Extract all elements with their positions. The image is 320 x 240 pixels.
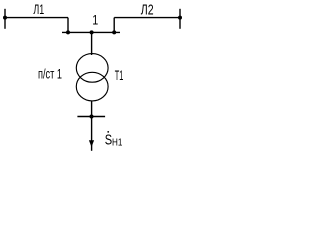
junction dot at left terminal bbox=[3, 16, 7, 20]
line L1 terminal end-bar (left) bbox=[4, 9, 6, 29]
svg-text:Н1: Н1 bbox=[112, 138, 123, 149]
junction dot at right terminal bbox=[178, 16, 182, 20]
junction dot bus right bbox=[112, 30, 116, 34]
label п/ст 1 bbox=[38, 66, 62, 82]
label S (load power) bbox=[105, 132, 112, 148]
bus node 1 bbox=[62, 31, 120, 33]
junction dot bus center bbox=[90, 30, 94, 34]
svg-text:Л1: Л1 bbox=[33, 2, 44, 18]
transformer T1 primary winding bbox=[76, 54, 108, 83]
wire bus to transformer T1 bbox=[91, 32, 93, 55]
junction dot at crossbar bbox=[90, 115, 94, 119]
label 1 (bus name) bbox=[92, 12, 98, 28]
transformer T1 secondary winding bbox=[76, 72, 108, 101]
arrowhead load arrow bbox=[89, 140, 94, 147]
wire L2 rise from bus bbox=[113, 18, 115, 33]
line L2 terminal end-bar (right) bbox=[179, 9, 181, 29]
dot above S bbox=[107, 131, 109, 133]
wire L2 horizontal bbox=[114, 17, 180, 19]
label Л2 bbox=[141, 2, 154, 18]
svg-text:п/ст 1: п/ст 1 bbox=[38, 66, 62, 82]
junction dot bus left bbox=[66, 30, 70, 34]
wire L1 drop to bus bbox=[67, 18, 69, 33]
svg-text:1: 1 bbox=[92, 12, 98, 28]
wire transformer to load bbox=[91, 101, 93, 151]
label H1 subscript bbox=[112, 138, 123, 149]
crossbar load tap bbox=[77, 116, 105, 118]
svg-text:Л2: Л2 bbox=[141, 2, 154, 18]
svg-text:Т1: Т1 bbox=[115, 68, 124, 83]
label Л1 bbox=[33, 2, 44, 18]
wire L1 horizontal bbox=[5, 17, 68, 19]
label Т1 bbox=[115, 68, 124, 83]
